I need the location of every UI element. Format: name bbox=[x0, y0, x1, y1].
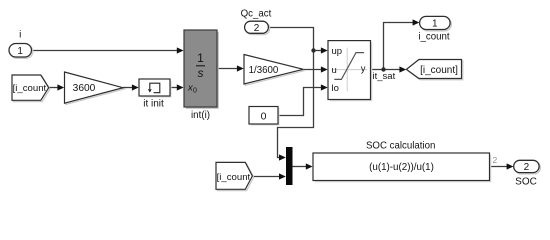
svg-text:u: u bbox=[332, 65, 337, 76]
svg-text:1: 1 bbox=[432, 19, 438, 30]
svg-text:lo: lo bbox=[332, 83, 339, 94]
svg-text:i: i bbox=[19, 30, 21, 41]
svg-text:it_sat: it_sat bbox=[373, 71, 396, 82]
svg-text:Qc_act: Qc_act bbox=[241, 8, 272, 19]
svg-text:int(i): int(i) bbox=[191, 110, 210, 121]
svg-text:1/3600: 1/3600 bbox=[249, 65, 279, 76]
svg-text:[i_count]: [i_count] bbox=[13, 83, 49, 94]
svg-text:0: 0 bbox=[193, 88, 197, 95]
svg-text:i_count: i_count bbox=[418, 32, 450, 43]
svg-text:SOC: SOC bbox=[515, 177, 537, 188]
svg-text:[i_count]: [i_count] bbox=[217, 172, 253, 183]
svg-text:0: 0 bbox=[261, 111, 267, 123]
svg-text:(u(1)-u(2))/u(1): (u(1)-u(2))/u(1) bbox=[369, 162, 434, 173]
svg-text:1: 1 bbox=[197, 51, 204, 65]
svg-text:s: s bbox=[198, 66, 204, 80]
svg-text:up: up bbox=[332, 46, 343, 57]
svg-text:2: 2 bbox=[493, 155, 498, 165]
svg-text:it init: it init bbox=[143, 99, 164, 110]
svg-text:2: 2 bbox=[524, 162, 530, 173]
svg-text:SOC calculation: SOC calculation bbox=[366, 141, 435, 152]
svg-text:3600: 3600 bbox=[73, 83, 96, 94]
svg-text:[i_count]: [i_count] bbox=[420, 65, 458, 76]
svg-text:2: 2 bbox=[254, 23, 260, 34]
svg-text:1: 1 bbox=[17, 46, 23, 57]
svg-text:y: y bbox=[361, 64, 366, 75]
